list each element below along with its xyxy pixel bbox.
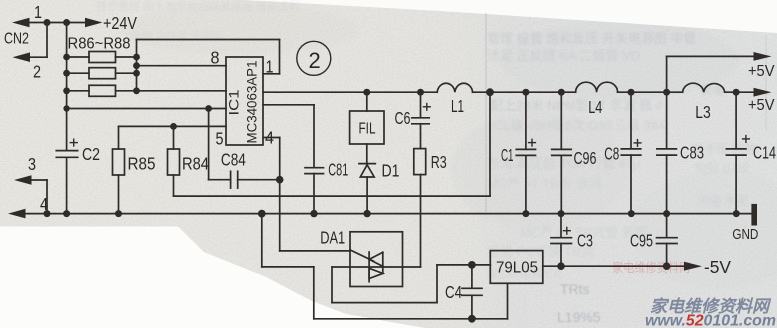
capacitor C6 — [412, 92, 430, 148]
svg-text:2: 2 — [309, 48, 321, 73]
wire pin 6 of IC — [67, 108, 226, 110]
wire right bus — [136, 40, 138, 91]
+5V riser wire — [667, 52, 772, 92]
wire DA1 output loop to 79L05 — [332, 261, 490, 303]
rail after L1 — [473, 91, 576, 93]
wire pin 5 of IC — [119, 125, 227, 127]
svg-text:2: 2 — [33, 62, 41, 82]
svg-text:家电维修资料网: 家电维修资料网 — [612, 260, 690, 275]
node 2 circle marker — [297, 41, 331, 75]
wire pin 4 of IC to DA1 — [263, 138, 350, 251]
resistor R88 — [63, 85, 226, 96]
feedback wire R84 to L1 node — [174, 92, 491, 196]
svg-text:GND: GND — [732, 226, 758, 243]
rail after L4 — [618, 91, 683, 93]
svg-text:R3: R3 — [431, 152, 447, 172]
faint bleedthrough text — [96, 0, 756, 281]
transistor DA1 box — [350, 232, 403, 287]
svg-text:C8: C8 — [604, 144, 619, 164]
svg-text:C84: C84 — [221, 150, 246, 170]
wire left bus lower — [66, 158, 68, 214]
connector CN2 pin 3 arrow — [14, 175, 47, 213]
node bus pin6 — [63, 105, 69, 111]
svg-text:物别 BZ级: 物别 BZ级 — [695, 161, 750, 175]
ground GND bar — [751, 204, 757, 226]
svg-text:L4: L4 — [588, 97, 602, 117]
svg-text:www.520101.com: www.520101.com — [645, 313, 776, 328]
svg-text:C95: C95 — [630, 231, 653, 251]
label IC1 MC34063AP1 — [227, 61, 260, 144]
svg-text:R86~R88: R86~R88 — [68, 36, 131, 53]
svg-text:-5V: -5V — [704, 257, 731, 277]
diode D1 — [359, 144, 375, 214]
capacitor C14 — [726, 92, 749, 213]
wire to pin 8 of IC — [137, 65, 227, 67]
capacitor C4 — [462, 265, 482, 319]
node C84 tap — [205, 105, 212, 112]
svg-text:R84: R84 — [182, 154, 209, 174]
node R84 top — [170, 123, 177, 130]
resistor R86 — [63, 52, 140, 63]
capacitor C83 — [657, 92, 677, 213]
svg-text:DA1: DA1 — [320, 228, 345, 248]
svg-text:D1: D1 — [382, 161, 400, 181]
svg-text:L1: L1 — [451, 96, 464, 116]
svg-text:MC产 97 TR形 层间: MC产 97 TR形 层间 — [487, 176, 602, 191]
capacitor C3 — [551, 214, 572, 267]
svg-text:C4: C4 — [445, 282, 462, 302]
svg-text:FIL: FIL — [359, 121, 376, 138]
node pin8 tap — [133, 62, 140, 69]
svg-text:C6: C6 — [395, 108, 411, 128]
wire pin 3 of IC — [263, 105, 314, 168]
wire to pin 1 of IC — [137, 40, 280, 74]
wire DA1 ground loop — [262, 214, 508, 323]
regulator 79L05 box — [490, 251, 543, 284]
svg-text:8: 8 — [211, 48, 220, 68]
inductor L1 — [437, 83, 472, 92]
svg-text:C1: C1 — [501, 145, 514, 165]
svg-text:TRts: TRts — [560, 281, 590, 297]
rail nodes — [363, 89, 370, 96]
wire R85 top — [118, 126, 120, 149]
capacitor C84 — [209, 109, 284, 189]
capacitor C95 — [657, 214, 678, 267]
svg-text:IC1: IC1 — [227, 90, 242, 116]
wire left bus upper — [66, 23, 68, 151]
filter FIL box — [350, 92, 384, 144]
svg-text:C81: C81 — [328, 160, 348, 180]
svg-text:L19%5: L19%5 — [557, 309, 601, 325]
svg-text:C96: C96 — [574, 148, 597, 168]
wire pin1 to pin2 — [46, 23, 48, 58]
svg-text:管理 极管 饱和反压 开关电源图 中管: 管理 极管 饱和反压 开关电源图 中管 — [487, 31, 696, 46]
main output rail pin2 — [263, 91, 437, 93]
faint table line bleed — [485, 13, 487, 212]
capacitor C96 — [552, 92, 572, 213]
svg-text:述足 正反馈 KA 二极管 VD: 述足 正反馈 KA 二极管 VD — [487, 48, 640, 63]
+24V arrow — [85, 18, 103, 28]
svg-text:C14: C14 — [753, 143, 776, 163]
svg-text:R85: R85 — [128, 154, 156, 174]
watermark — [645, 297, 776, 328]
resistor R85 — [113, 149, 125, 214]
rail to +5V arrow — [725, 91, 754, 93]
svg-text:特负责任 由土地所有的政策措施 维修资料: 特负责任 由土地所有的政策措施 维修资料 — [96, 0, 300, 13]
svg-text:1: 1 — [266, 57, 274, 77]
ground rail nodes — [44, 210, 51, 217]
capacitor C81 — [305, 168, 324, 214]
op-amp U1: IC1 MC34063AP1 box — [226, 57, 263, 145]
svg-text:5: 5 — [216, 129, 224, 149]
svg-text:+5V: +5V — [748, 63, 775, 80]
svg-text:79L05: 79L05 — [496, 260, 538, 277]
white wedge bottom-left — [0, 227, 425, 328]
connector CN2 pin 4 arrow / ground rail — [8, 209, 752, 219]
svg-text:+24V: +24V — [103, 13, 137, 33]
svg-text:L3: L3 — [695, 102, 711, 122]
svg-text:+5V: +5V — [748, 97, 775, 114]
node +24V bus — [63, 19, 70, 26]
capacitor C2 — [56, 139, 77, 157]
svg-text:C2: C2 — [82, 144, 100, 164]
svg-text:C3: C3 — [577, 231, 593, 251]
inductor L3 — [683, 83, 725, 92]
svg-text:间值 手图: 间值 手图 — [697, 193, 748, 208]
svg-text:3: 3 — [28, 154, 36, 174]
svg-text:4: 4 — [40, 194, 48, 214]
connector CN2 pin 2 arrow — [13, 52, 48, 62]
svg-text:√CL级 √9H级2次 O9B三级 384: √CL级 √9H级2次 O9B三级 384 — [487, 118, 665, 133]
svg-text:推测 三极管 大图出: 推测 三极管 大图出 — [130, 29, 224, 43]
resistor R84 — [168, 126, 180, 196]
white wedge top-right — [245, 0, 777, 33]
svg-text:1: 1 — [34, 2, 42, 22]
inductor L4 — [576, 82, 618, 92]
resistor R3 — [414, 149, 426, 267]
connector CN2 pin 1 arrow — [12, 18, 85, 28]
capacitor C1 — [516, 92, 535, 213]
capacitor C8 — [621, 92, 641, 213]
svg-text:4: 4 — [265, 128, 274, 148]
svg-text:配上28米 NPN型 1T 示波 极∥: 配上28米 NPN型 1T 示波 极∥ — [490, 98, 665, 113]
svg-text:C83: C83 — [680, 143, 704, 163]
resistor R87 — [63, 68, 140, 79]
svg-text:MC34063AP1: MC34063AP1 — [245, 61, 260, 144]
node at pin1 — [44, 19, 51, 26]
svg-text:CN2: CN2 — [4, 31, 29, 48]
-5V output wire — [543, 262, 702, 271]
